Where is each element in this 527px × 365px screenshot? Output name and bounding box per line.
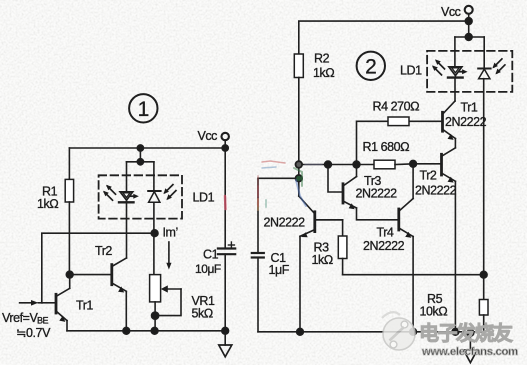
wire: bottom rail circuit 2 [258, 331, 484, 333]
resistor R3 (circuit 2) [315, 220, 347, 275]
wire: LD1 split crossbar circuit 2 [455, 36, 484, 38]
resistor R2 (circuit 2) [294, 54, 303, 165]
svg-text:2N2222: 2N2222 [363, 239, 405, 253]
node: Tr3 collector junction [353, 161, 360, 168]
svg-text:2: 2 [365, 56, 376, 79]
wire: photodiode down to Im node [153, 202, 155, 233]
svg-text:Tr2: Tr2 [95, 244, 112, 258]
svg-text:LD1: LD1 [193, 191, 215, 205]
svg-text:Vcc: Vcc [441, 5, 461, 19]
wire: middle rail circuit 2 [299, 164, 374, 166]
svg-text:1kΩ: 1kΩ [312, 253, 333, 267]
svg-text:BE: BE [37, 316, 49, 326]
wire: LED cathode down to Tr2 collector [126, 202, 128, 258]
svg-text:1μF: 1μF [269, 263, 290, 277]
wire: horizontal feedback wire y=233 [42, 233, 155, 303]
wire: split crossbar [127, 161, 154, 163]
watermark logo [382, 312, 415, 350]
svg-text:2N2222: 2N2222 [445, 115, 487, 129]
label R3 1kOhm [312, 241, 333, 268]
optocoupler LD1 dashed box (circuit 2) [427, 51, 512, 92]
node: VR1 bottom on rail [151, 327, 158, 334]
node: Tr2 base / Tr4 collector junction [410, 160, 417, 167]
label C1 10uF (circuit 1) [195, 248, 221, 277]
wire: photodiode cathode long drop to R5 node [483, 79, 485, 275]
svg-text:10kΩ: 10kΩ [420, 305, 448, 319]
svg-text:1kΩ: 1kΩ [37, 197, 58, 211]
node junction at Vcc drop [222, 145, 228, 151]
node: junction above LD1 [465, 34, 472, 41]
node: junction below Vcc [465, 18, 472, 25]
ground symbol circuit 2 [464, 332, 478, 363]
resistor R1 (circuit 2) [374, 160, 395, 169]
node: Tr2 emitter on rail [123, 327, 130, 334]
Vcc terminal (circuit 1) [198, 129, 229, 148]
svg-text:Tr1: Tr1 [76, 299, 93, 313]
photodiode reception arrows (circuit 1) [163, 185, 176, 201]
Vcc terminal (circuit 2) [441, 5, 473, 37]
node: Tr2 emitter on rail [452, 328, 459, 335]
label R5 10kOhm [420, 292, 448, 319]
watermark text [419, 321, 518, 358]
node junction on top rail [137, 145, 143, 151]
small arrow on LED right (circuit 2) [459, 71, 464, 73]
resistor R5 (circuit 2) [479, 275, 488, 332]
wire: LED anode drop [126, 162, 128, 192]
capacitor C1 (circuit 1) [218, 148, 235, 331]
node: R2 bottom junction [295, 161, 302, 168]
node: Tr1 collector / Tr2 base junction [66, 271, 73, 278]
svg-text:2N2222: 2N2222 [264, 216, 306, 230]
transistor Tr2 (circuit 1) [112, 258, 127, 331]
scan color artifacts [225, 161, 322, 210]
node: ground junction circuit 1 [222, 327, 229, 334]
svg-text:Im’: Im’ [163, 226, 178, 240]
svg-text:10μF: 10μF [195, 262, 221, 276]
transistor Q5 2N2222 (left, circuit 2) [299, 196, 343, 332]
transistor Tr3 (circuit 2) [328, 165, 399, 220]
Im current arrow [166, 242, 171, 270]
svg-text:5kΩ: 5kΩ [192, 307, 213, 321]
wire: photodiode drop circuit 2 [483, 37, 485, 69]
wire: rail from R1 to Tr2 base [395, 163, 413, 166]
node: split junction above LD1 [137, 159, 143, 165]
transistor Tr1 (circuit 1) [42, 275, 69, 331]
svg-text:Tr2: Tr2 [420, 169, 437, 183]
svg-text:1kΩ: 1kΩ [313, 66, 334, 80]
resistor R4 (circuit 2) [357, 117, 410, 165]
node: C1 coupling junction [295, 175, 302, 182]
transistor Tr2 (circuit 2) [413, 148, 455, 332]
wire: junction to Tr2 base [70, 274, 112, 276]
LED emission arrows (circuit 1) [103, 185, 116, 201]
LED D1 (emitting diode, circuit 1) [119, 192, 139, 203]
svg-text:R1 680Ω: R1 680Ω [363, 140, 410, 154]
resistor R1 (circuit 1) [65, 148, 73, 275]
photodiode PD1 (circuit 1) [148, 191, 160, 202]
label Tr3 2N2222 [356, 174, 398, 201]
svg-text:2N2222: 2N2222 [415, 184, 457, 198]
wire: top Vcc rail circuit 1 [69, 147, 225, 149]
svg-text:C1: C1 [203, 248, 219, 262]
wire: R3 bottom to R5 top node [343, 274, 484, 276]
label R2 1kOhm [313, 52, 334, 81]
svg-text:Tr4: Tr4 [377, 226, 394, 240]
photodiode reception arrows (circuit 2) [492, 59, 505, 75]
node: circled label 1 [129, 94, 157, 122]
node: R5 top junction [480, 271, 487, 278]
svg-text:www.elecfans.com: www.elecfans.com [421, 346, 518, 358]
transistor Tr1 (circuit 2) [409, 101, 455, 148]
svg-text:R2: R2 [314, 52, 330, 66]
svg-text:1: 1 [138, 98, 149, 121]
svg-text:≒0.7V: ≒0.7V [16, 326, 51, 340]
wire: bottom rail circuit 1 [67, 330, 225, 332]
svg-text:2N2222: 2N2222 [356, 187, 398, 201]
optocoupler LD1 dashed box (circuit 1) [99, 175, 182, 218]
wire: collector node drop (left 2N2222) [298, 165, 300, 197]
wire: top rail circuit 2 [299, 21, 469, 54]
label Tr1 2N2222 (circuit 2) [445, 101, 487, 130]
node: left 2N2222 emitter on rail [297, 328, 304, 335]
svg-text:Vref=V: Vref=V [2, 311, 39, 325]
transistor Tr4 (circuit 2) [399, 164, 413, 332]
svg-text:Vcc: Vcc [198, 129, 218, 143]
label C1 1uF (circuit 2) [269, 251, 290, 277]
node: Tr4 emitter on rail [410, 328, 417, 335]
wire: from top rail down to LED pair split [139, 148, 141, 162]
wire: LED cathode down to Tr1 collector (circuit 2) [454, 78, 456, 101]
small arrow on LED right [131, 195, 136, 197]
svg-text:Tr1: Tr1 [461, 101, 478, 115]
label Vref=VBE [2, 311, 51, 340]
svg-text:R4 270Ω: R4 270Ω [373, 100, 420, 114]
label R1 1kOhm (circuit 1) [37, 185, 58, 212]
photodiode PD2 (circuit 2) [478, 69, 490, 79]
node: Im junction dot [151, 230, 158, 237]
node: circled label 2 [357, 52, 385, 80]
svg-text:电子发烧友: 电子发烧友 [419, 321, 513, 345]
node: Tr3 base drop junction [325, 161, 332, 168]
LED emission arrows (circuit 2) [432, 59, 445, 75]
node: ground junction circuit 2 [467, 329, 474, 336]
wire: photodiode drop [153, 162, 155, 191]
Vref input arrow [20, 300, 43, 306]
svg-text:LD1: LD1 [400, 64, 422, 78]
potentiometer VR1 [150, 233, 181, 331]
ground symbol circuit 1 [219, 331, 232, 357]
label Tr4 2N2222 [363, 226, 405, 254]
label Tr2 2N2222 (circuit 2) [415, 169, 457, 198]
label VR1 5kOhm [192, 294, 215, 321]
capacitor C1 (circuit 2) [252, 178, 299, 331]
wire: LED anode drop circuit 2 [454, 37, 456, 67]
LED D2 (emitting diode, circuit 2) [448, 67, 468, 78]
VR1 wiper arrow [167, 288, 182, 290]
